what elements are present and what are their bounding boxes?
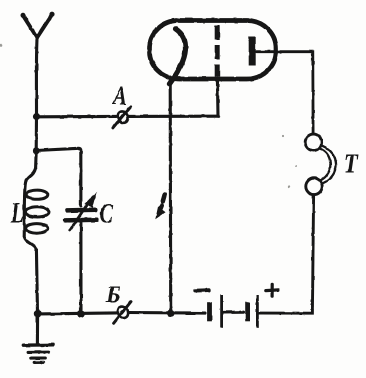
- ground stem: [36, 314, 39, 344]
- label C: [100, 204, 113, 223]
- wire node to coil top: [34, 117, 38, 168]
- antenna: [21, 12, 55, 38]
- battery cell 1 negative plate: [207, 302, 212, 321]
- node capacitor-bottom junction: [77, 310, 85, 318]
- jack B: [114, 302, 131, 324]
- wire grid lead: [216, 79, 220, 116]
- battery link wire: [223, 311, 244, 314]
- node tank-top junction: [33, 147, 40, 154]
- node filament-B junction: [167, 309, 175, 317]
- wire phones to battery corner: [258, 195, 313, 313]
- ground: [23, 345, 53, 363]
- wire to capacitor branch: [36, 148, 81, 206]
- inductor L: [24, 168, 49, 249]
- tube V envelope: [150, 21, 277, 80]
- tube grid: [215, 26, 220, 77]
- wire plate lead: [257, 52, 314, 134]
- wire A-line right segment: [128, 115, 218, 118]
- node A junction: [33, 113, 40, 120]
- battery cell 2 negative plate: [245, 302, 250, 321]
- tube plate: [249, 37, 256, 66]
- wire coil bottom: [36, 249, 37, 314]
- arrow mark on filament wire: [157, 195, 165, 218]
- wire capacitor bottom: [79, 222, 82, 314]
- capacitor C variable arrow: [70, 194, 96, 230]
- wire filament cathode down: [169, 77, 173, 314]
- battery cell 2 positive plate: [256, 295, 259, 328]
- wire A-line left segment: [37, 115, 116, 119]
- wire B-line right segment: [129, 311, 205, 315]
- headphones T: [305, 134, 336, 194]
- label A: [112, 87, 126, 104]
- jack A: [113, 106, 131, 128]
- label T: [345, 155, 358, 173]
- wire B-line left segment: [38, 313, 117, 314]
- battery cell 1 positive plate: [220, 295, 223, 328]
- label plus: [266, 284, 279, 296]
- tube filament: [169, 29, 185, 84]
- capacitor C plates: [66, 210, 97, 221]
- node ground junction: [34, 310, 42, 318]
- label B: [106, 286, 120, 302]
- paper specks: [0, 44, 297, 189]
- wire antenna lead-in: [35, 39, 39, 117]
- label L: [11, 203, 24, 222]
- label minus: [195, 288, 209, 292]
